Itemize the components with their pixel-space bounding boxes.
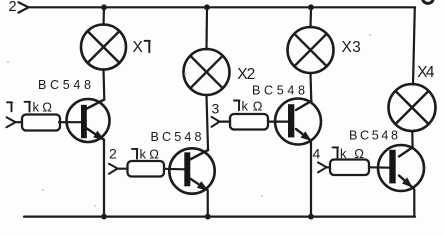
lamp X2 — [184, 49, 230, 95]
wire input 2 to R2 — [118, 168, 128, 170]
lamp X1 — [81, 25, 126, 70]
wire top supply rail — [29, 6, 416, 8]
resistor R2 — [128, 161, 165, 177]
svg-text:BC548: BC548 — [38, 78, 91, 92]
wire input 1 to R1 — [16, 121, 22, 123]
transistor Q3 — [275, 99, 321, 145]
svg-text:X3: X3 — [342, 39, 361, 56]
wire right drop to X4 — [413, 7, 415, 84]
resistor R4 — [330, 160, 369, 176]
wire R4 to Q4 base — [369, 166, 389, 169]
label 1kOhm R3 — [234, 101, 240, 111]
lamp X3 — [288, 27, 334, 73]
label 1kOhm R1 — [25, 102, 31, 112]
svg-text:X2: X2 — [237, 66, 255, 83]
wire bottom rail — [24, 216, 415, 218]
svg-text:BC548: BC548 — [151, 130, 202, 144]
svg-text:2: 2 — [109, 146, 117, 162]
transistor Q2 — [169, 148, 214, 193]
svg-text:X4: X4 — [417, 64, 435, 81]
wire R2 to Q2 base — [164, 168, 184, 171]
node junction bottom 2 — [205, 214, 211, 220]
svg-text:kΩ: kΩ — [242, 98, 263, 113]
node junction top 3 — [308, 4, 314, 10]
svg-text:kΩ: kΩ — [140, 147, 160, 162]
resistor R3 — [230, 114, 268, 130]
node junction bottom 3 — [308, 214, 314, 220]
input 4 arrow — [318, 162, 327, 172]
svg-text:3: 3 — [212, 101, 220, 117]
svg-text:BC548: BC548 — [349, 128, 398, 142]
node junction top 2 — [204, 4, 210, 10]
wire X1 top lead — [102, 7, 105, 25]
transistor Q4 — [378, 145, 424, 191]
stray glyph top right — [423, 0, 434, 3]
wire Q4 emitter to bottom rail — [412, 187, 415, 217]
label 1 input — [7, 102, 12, 111]
lamp X4 — [389, 84, 436, 131]
wire X3 to Q3 collector — [309, 73, 312, 101]
label 1kOhm R4 — [333, 147, 339, 158]
node junction top 1 — [101, 4, 107, 10]
label 1kOhm R2 — [132, 149, 138, 159]
svg-text:4: 4 — [313, 146, 321, 162]
wire X3 top lead — [309, 7, 312, 27]
svg-text:2: 2 — [9, 0, 17, 15]
wire X4 to Q4 collector — [411, 131, 414, 147]
svg-text:BC548: BC548 — [252, 83, 305, 97]
transistor Q1 — [67, 99, 110, 142]
wire Q1 emitter to bottom rail — [103, 140, 105, 217]
terminal 2 arrow — [19, 2, 29, 12]
resistor R1 — [22, 115, 60, 131]
wire R1 to Q1 base — [59, 121, 81, 123]
svg-text:kΩ: kΩ — [33, 100, 53, 115]
input 3 arrow — [212, 117, 220, 127]
wire Q3 emitter to bottom rail — [310, 141, 312, 217]
wire X2 to Q2 collector — [207, 95, 209, 150]
wire X1 to Q1 collector — [102, 69, 105, 99]
svg-text:X: X — [133, 39, 144, 56]
wire input 4 to R4 — [327, 166, 331, 168]
wire X2 top lead — [205, 7, 208, 49]
input 2 arrow — [109, 164, 118, 174]
node junction bottom 1 — [101, 214, 107, 220]
wire Q2 emitter to bottom rail — [207, 190, 209, 217]
wire input 3 to R3 — [220, 120, 231, 122]
wire R3 to Q3 base — [268, 120, 288, 122]
input 1 arrow — [7, 117, 16, 127]
scan speckles — [7, 34, 370, 206]
